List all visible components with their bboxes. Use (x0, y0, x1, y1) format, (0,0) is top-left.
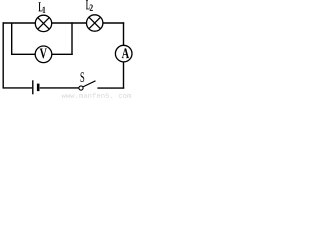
voltmeter letter V (40, 49, 47, 59)
watermark www.manfen5.com (62, 93, 132, 98)
wire right side vertical from top corner down to ammeter (123, 22, 125, 45)
wire top left segment (3, 22, 36, 24)
switch S pivot circle (79, 86, 83, 90)
wire left side vertical (2, 22, 4, 88)
lamp L2 cross (89, 17, 101, 29)
label L2 letter L (86, 0, 90, 9)
battery positive long plate (32, 80, 34, 94)
wire bottom left segment from corner to battery (3, 87, 32, 89)
wire voltmeter branch right horizontal (52, 53, 73, 55)
wire top middle segment between L1 and L2 (52, 22, 87, 24)
ammeter U2 circle (115, 45, 132, 62)
lamp L2 circle (87, 15, 103, 31)
lamp L1 circle (35, 15, 51, 31)
wire voltmeter branch right vertical up to node between lamps (71, 22, 73, 55)
wire bottom segment from switch to bottom-right corner (97, 87, 124, 89)
wire bottom segment from battery to switch (40, 87, 79, 89)
label L1 subscript 1 (43, 7, 46, 13)
switch S lever (83, 81, 96, 87)
wire from ammeter bottom down to bottom-right corner (123, 62, 125, 89)
wire voltmeter branch left horizontal (11, 53, 35, 55)
battery negative short thick plate (37, 84, 40, 92)
label S for switch (81, 72, 85, 82)
lamp L1 cross (38, 18, 50, 30)
ammeter letter A (122, 48, 129, 58)
voltmeter U1 circle (35, 46, 52, 63)
wire top right segment from L2 to corner (103, 22, 124, 24)
label L1 letter L (39, 2, 43, 11)
label L2 subscript 2 (90, 5, 93, 11)
wire voltmeter branch left vertical (11, 23, 13, 54)
